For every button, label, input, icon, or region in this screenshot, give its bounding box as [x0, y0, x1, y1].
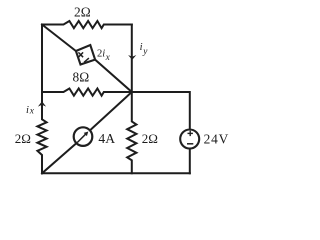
- svg-text:x: x: [29, 107, 35, 117]
- wire right vertical top: [131, 25, 133, 93]
- svg-text:24V: 24V: [204, 131, 229, 146]
- dependent source U1 diamond 2ix: [76, 45, 95, 65]
- svg-text:2Ω: 2Ω: [142, 131, 158, 146]
- wire bottom: [42, 172, 190, 174]
- plus sign: [188, 132, 193, 134]
- svg-text:8Ω: 8Ω: [73, 69, 90, 84]
- resistor R1 2ohm top: [42, 21, 132, 28]
- arrowhead iy current arrow: [128, 55, 136, 60]
- arrow inside 4A source: [77, 134, 85, 142]
- x mark inside diamond: [78, 52, 83, 57]
- arrowhead ix current arrow: [38, 101, 46, 106]
- svg-text:2Ω: 2Ω: [74, 4, 91, 19]
- svg-text:2Ω: 2Ω: [15, 131, 31, 146]
- svg-text:i: i: [26, 105, 29, 116]
- resistor R3 2ohm left with left wire: [37, 25, 46, 174]
- resistor R2 8ohm: [42, 89, 132, 96]
- voltage source V1 24V circle: [180, 130, 199, 149]
- svg-text:4A: 4A: [98, 131, 115, 146]
- wire diagonal upper-left segment: [42, 25, 76, 52]
- current source I1 4A circle: [74, 127, 93, 146]
- wire 24V to bottom: [189, 148, 191, 173]
- resistor R4 2ohm middle with leads: [127, 92, 136, 173]
- svg-text:x: x: [105, 53, 111, 63]
- slash mark inside diamond: [84, 58, 89, 62]
- svg-text:y: y: [142, 47, 148, 57]
- wire center node to right rail: [132, 92, 190, 130]
- svg-text:i: i: [140, 42, 143, 53]
- wire diagonal from 4A to center node: [90, 92, 132, 130]
- wire diagonal lower-left segment: [42, 144, 76, 174]
- svg-text:2i: 2i: [97, 49, 105, 60]
- wire diagonal lower-right segment: [95, 60, 132, 92]
- minus sign: [187, 143, 193, 145]
